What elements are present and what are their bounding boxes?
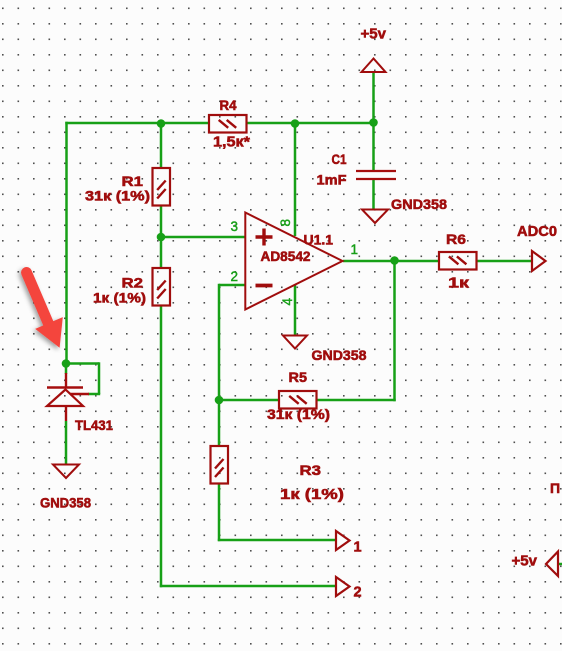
wire R5 right xyxy=(317,399,396,402)
ground GND358 mid (op-amp pin 4) xyxy=(283,336,307,349)
svg-text:GND358: GND358 xyxy=(312,347,367,363)
svg-text:1к (1%): 1к (1%) xyxy=(280,487,344,503)
resistor R4 xyxy=(209,115,247,133)
junction +5v / C1 xyxy=(369,118,378,127)
resistor R1 xyxy=(153,168,171,206)
wire TL431 cathode stub xyxy=(65,364,68,375)
wire right edge +5v stub xyxy=(558,563,562,566)
wire feedback vertical xyxy=(393,261,396,401)
TL431 anode lead xyxy=(65,406,67,421)
wire pin8 xyxy=(294,123,297,236)
junction output xyxy=(390,256,399,265)
svg-text:31к (1%): 31к (1%) xyxy=(267,406,330,422)
svg-text:R4: R4 xyxy=(220,98,237,113)
wire R2 bottom down xyxy=(160,306,163,587)
op-amp minus input mark xyxy=(256,284,273,288)
svg-text:AD8542: AD8542 xyxy=(261,249,311,264)
ground GND358 top (under C1) xyxy=(362,210,388,224)
wire R6 to ADC0 connector xyxy=(477,260,532,263)
svg-text:+5v: +5v xyxy=(512,554,538,570)
TL431 anode triangle xyxy=(47,390,83,407)
resistor R6 xyxy=(439,252,477,270)
svg-text:4: 4 xyxy=(280,298,295,306)
wire +5v down to C1 xyxy=(372,73,375,170)
wire top horizontal right of R4 xyxy=(247,122,374,125)
svg-text:1: 1 xyxy=(354,540,362,556)
svg-text:R5: R5 xyxy=(289,369,308,385)
svg-text:+5v: +5v xyxy=(361,27,387,43)
svg-text:C1: C1 xyxy=(332,151,347,167)
+5v supply symbol top xyxy=(362,59,386,73)
svg-text:ADC0: ADC0 xyxy=(517,224,557,240)
op-amp plus input mark xyxy=(256,229,273,246)
wire C1 to GND xyxy=(372,180,375,209)
svg-text:R2: R2 xyxy=(122,275,144,291)
annotation red arrow xyxy=(27,273,63,348)
svg-text:8: 8 xyxy=(278,219,293,227)
svg-text:R3: R3 xyxy=(300,462,322,478)
svg-text:U1.1: U1.1 xyxy=(304,232,334,248)
svg-text:П: П xyxy=(550,480,560,496)
capacitor C1 xyxy=(356,171,396,179)
wire R3 bottom down xyxy=(218,484,221,541)
wire pin2 horizontal xyxy=(219,284,245,287)
wire TL431 anode to GND xyxy=(65,421,68,464)
connector pin 2 xyxy=(336,577,350,596)
svg-text:1к: 1к xyxy=(448,275,470,292)
junction pin8 xyxy=(291,119,300,128)
wire R5 left xyxy=(219,399,278,402)
wire pin4 xyxy=(294,285,297,335)
svg-text:TL431: TL431 xyxy=(75,417,113,433)
svg-text:GND358: GND358 xyxy=(391,196,447,212)
wire top horizontal left of R4 xyxy=(65,122,208,125)
svg-text:R6: R6 xyxy=(446,231,466,247)
resistor R5 xyxy=(279,391,317,409)
connector ADC0 xyxy=(532,251,546,271)
connector pin 1 xyxy=(336,531,350,550)
TL431 D1 xyxy=(47,373,89,421)
svg-text:1mF: 1mF xyxy=(317,172,347,188)
resistor R2 xyxy=(153,268,171,306)
svg-text:1: 1 xyxy=(351,242,359,257)
wire R1 bottom to R2 top xyxy=(160,205,163,267)
op-amp U1.1 xyxy=(245,213,342,310)
wire pin3 xyxy=(161,236,245,239)
svg-text:3: 3 xyxy=(231,219,239,234)
TL431 cathode lead xyxy=(65,373,67,388)
svg-text:1к (1%): 1к (1%) xyxy=(93,290,146,306)
TL431 ref stub xyxy=(70,393,89,395)
wire pin2 vertical to R3 xyxy=(218,284,221,445)
ground GND358 bottom-left (TL431) xyxy=(53,465,79,479)
svg-text:31к (1%): 31к (1%) xyxy=(85,188,150,204)
junction TL431 node xyxy=(62,359,71,368)
svg-text:GND358: GND358 xyxy=(40,495,91,511)
junction R1/R2/pin3 xyxy=(157,233,166,242)
wire to connector 1 xyxy=(218,539,336,542)
wire to connector 2 xyxy=(160,585,336,588)
svg-text:2: 2 xyxy=(231,269,239,284)
wire TL431 fold top xyxy=(66,362,99,365)
wire TL431 fold bottom xyxy=(88,393,100,396)
svg-text:2: 2 xyxy=(354,585,362,601)
svg-text:1,5к*: 1,5к* xyxy=(213,135,250,151)
junction R5/R3/pin2 xyxy=(215,396,224,405)
TL431 cathode bar xyxy=(47,386,83,388)
wire R1 top xyxy=(160,123,163,167)
wire TL431 fold right xyxy=(98,362,101,394)
junction R1 top xyxy=(157,119,166,128)
resistor R3 xyxy=(211,446,229,484)
wire left vertical xyxy=(65,122,68,364)
connector +5v right edge xyxy=(546,552,558,577)
wire opamp output to R6 xyxy=(343,260,438,263)
